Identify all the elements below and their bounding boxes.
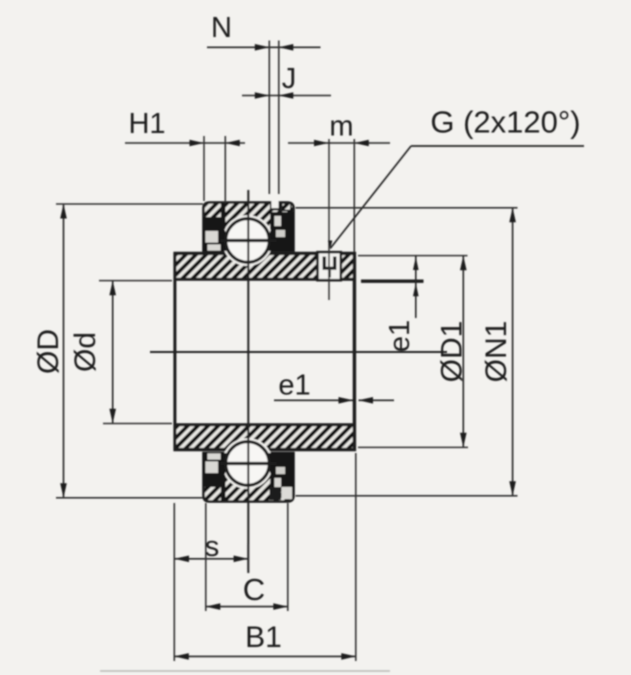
svg-text:G (2x120°): G (2x120°) (430, 105, 580, 140)
svg-text:e1: e1 (384, 320, 416, 352)
svg-text:N: N (211, 12, 232, 44)
svg-text:C: C (243, 572, 265, 607)
svg-text:ØD1: ØD1 (436, 321, 469, 383)
svg-text:J: J (282, 63, 297, 95)
svg-text:ØN1: ØN1 (480, 321, 513, 383)
svg-text:m: m (329, 111, 353, 143)
svg-text:Ød: Ød (69, 332, 102, 372)
svg-text:H1: H1 (128, 108, 165, 140)
svg-text:ØD: ØD (32, 329, 65, 374)
svg-text:e1: e1 (278, 370, 310, 402)
svg-text:B1: B1 (245, 621, 282, 654)
svg-text:s: s (205, 531, 220, 563)
